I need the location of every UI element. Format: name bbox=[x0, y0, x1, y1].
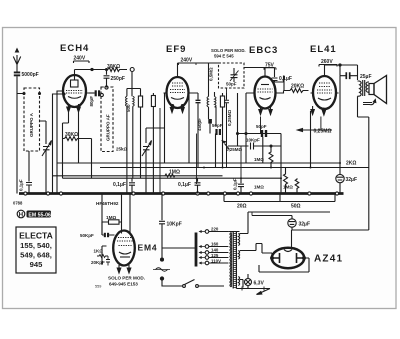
svg-text:155, 540,: 155, 540, bbox=[20, 241, 52, 250]
svg-text:594 E 545: 594 E 545 bbox=[214, 54, 234, 59]
wire bbox=[26, 183, 32, 194]
junction bbox=[270, 145, 272, 147]
svg-text:50Ω: 50Ω bbox=[291, 204, 301, 210]
wire bbox=[284, 168, 288, 194]
capacitor 25uF top right bbox=[339, 64, 341, 66]
wire bbox=[319, 65, 337, 67]
heater arrows EL41 bbox=[311, 106, 326, 115]
svg-text:0,1µF: 0,1µF bbox=[279, 76, 292, 82]
wire bbox=[261, 130, 263, 137]
wire bbox=[97, 255, 108, 258]
svg-text:ELECTA: ELECTA bbox=[19, 231, 53, 241]
wire bbox=[106, 256, 110, 266]
wire bbox=[98, 90, 100, 96]
bottom heater wires bbox=[236, 288, 270, 290]
dashed box 50pF trimmer bbox=[219, 63, 245, 88]
wire bbox=[280, 134, 282, 194]
svg-text:649-945 E153: 649-945 E153 bbox=[109, 282, 138, 287]
svg-text:EM4: EM4 bbox=[138, 243, 158, 253]
EM4 section verticals bbox=[102, 194, 130, 236]
svg-text:0,25MΩ: 0,25MΩ bbox=[227, 109, 232, 126]
line F y=212 bbox=[248, 211, 330, 213]
vertical 340 with 32uF bbox=[339, 76, 341, 175]
wire bbox=[320, 117, 322, 131]
wire bbox=[238, 93, 252, 134]
svg-text:30KΩ: 30KΩ bbox=[65, 132, 78, 138]
junction bbox=[160, 277, 163, 280]
32uF cap upper bbox=[336, 174, 344, 193]
wire bbox=[129, 178, 135, 193]
group bbox=[311, 65, 339, 100]
misc wires EBC3 right bbox=[279, 91, 284, 94]
wire bbox=[222, 107, 224, 168]
wire bbox=[295, 178, 299, 193]
wire bbox=[238, 178, 244, 193]
junction bbox=[39, 93, 41, 95]
wire bbox=[259, 289, 270, 294]
wire bbox=[223, 141, 226, 143]
wire bbox=[132, 113, 134, 128]
svg-text:0,25MΩ: 0,25MΩ bbox=[314, 129, 332, 135]
terminal bbox=[100, 93, 103, 96]
wire bbox=[262, 137, 264, 163]
wire bbox=[340, 65, 358, 76]
junction dots antenna coil bbox=[23, 93, 25, 95]
svg-text:160: 160 bbox=[211, 242, 219, 247]
wire bbox=[165, 92, 167, 94]
svg-text:945: 945 bbox=[30, 260, 43, 269]
pickup symbol bbox=[156, 268, 168, 272]
wire bbox=[104, 233, 106, 237]
wire bbox=[262, 287, 266, 291]
wire ECH4 left to bus bbox=[57, 91, 60, 194]
wire bbox=[260, 117, 262, 134]
wire bbox=[265, 130, 267, 137]
wire bbox=[89, 92, 95, 94]
IF2 coils bbox=[208, 63, 210, 97]
wire bbox=[165, 174, 175, 177]
capacitor 0.1uF after EBC3 bbox=[265, 68, 284, 83]
svg-text:125: 125 bbox=[211, 253, 219, 258]
0,25M pot arrow bbox=[302, 129, 332, 131]
svg-text:450pF: 450pF bbox=[197, 118, 202, 131]
cap right of IF2 bbox=[224, 93, 229, 168]
svg-text:1MΩ: 1MΩ bbox=[254, 185, 264, 190]
wires around 30K bbox=[63, 139, 92, 179]
wire bbox=[78, 112, 80, 163]
right side down wires bbox=[292, 104, 369, 230]
output transformer bbox=[358, 80, 370, 104]
svg-text:25µF: 25µF bbox=[360, 74, 372, 80]
svg-text:549, 648,: 549, 648, bbox=[20, 251, 52, 260]
wire bbox=[127, 72, 141, 97]
svg-text:0,1µF: 0,1µF bbox=[233, 178, 238, 190]
tube EL41 bbox=[313, 76, 336, 109]
svg-text:220: 220 bbox=[211, 227, 219, 232]
wire bbox=[346, 72, 349, 79]
voltage selector bar bbox=[195, 233, 198, 267]
svg-text:0,5MΩ: 0,5MΩ bbox=[209, 67, 214, 81]
wire bbox=[197, 103, 199, 167]
wire bbox=[152, 93, 154, 194]
stamp EM 55-06 bbox=[17, 210, 51, 218]
svg-text:32µF: 32µF bbox=[346, 177, 358, 183]
wire bbox=[198, 285, 224, 287]
group bbox=[271, 242, 306, 264]
svg-text:0,1µF: 0,1µF bbox=[19, 179, 24, 191]
svg-text:110V: 110V bbox=[211, 258, 221, 263]
svg-text:25kΩ: 25kΩ bbox=[116, 147, 128, 152]
capacitor 250pF bbox=[106, 69, 108, 71]
wire bbox=[146, 127, 165, 129]
wire EM4 right bbox=[162, 247, 196, 249]
svg-text:250pF: 250pF bbox=[111, 76, 125, 82]
wire bbox=[178, 62, 220, 64]
coil box GRUPPO AF bbox=[101, 87, 113, 152]
wire bbox=[291, 230, 293, 242]
svg-text:EL41: EL41 bbox=[310, 44, 337, 55]
ELECTA box bbox=[16, 227, 56, 273]
junction dots mid bbox=[196, 162, 342, 179]
wire bbox=[231, 68, 238, 82]
junction bbox=[245, 133, 247, 135]
wire box to tuning bbox=[40, 121, 47, 144]
svg-text:HF46TH92: HF46TH92 bbox=[96, 201, 119, 206]
wire bbox=[279, 91, 284, 94]
tube EM4 bbox=[113, 231, 135, 266]
volume pot line bbox=[238, 133, 282, 135]
svg-text:1MΩ: 1MΩ bbox=[254, 157, 264, 162]
pins and heater arrows EF9 bbox=[171, 105, 183, 107]
svg-text:GRUPPO A: GRUPPO A bbox=[29, 112, 34, 137]
AZ41 tube bbox=[272, 248, 304, 268]
wire bbox=[63, 137, 83, 141]
wire bbox=[240, 280, 243, 288]
extra vertical wires bbox=[159, 108, 161, 194]
wire bbox=[219, 63, 265, 68]
junction bbox=[130, 68, 134, 72]
wire ECH4 grid left bbox=[53, 94, 64, 194]
10KpF cap bbox=[228, 143, 281, 150]
coil IF1 secondary bbox=[133, 96, 134, 106]
left components of EM4 bbox=[102, 246, 107, 265]
terminal bbox=[105, 86, 108, 89]
resistor 500 bbox=[138, 96, 142, 107]
group bbox=[170, 108, 184, 113]
heater arrows EM4 bbox=[117, 265, 131, 273]
svg-text:0,25MΩ: 0,25MΩ bbox=[226, 147, 243, 152]
wire bbox=[226, 96, 228, 143]
wire bbox=[240, 287, 244, 291]
svg-text:H: H bbox=[19, 211, 24, 218]
line B y=167.5 bbox=[100, 167, 369, 169]
speaker bbox=[369, 76, 387, 104]
svg-text:1MΩ: 1MΩ bbox=[169, 170, 180, 176]
wire bbox=[108, 68, 127, 72]
1M resistor box bbox=[102, 222, 122, 235]
wire bbox=[195, 178, 201, 193]
wire bbox=[264, 68, 276, 70]
svg-text:50pF: 50pF bbox=[212, 123, 223, 128]
capacitor 5000pF bbox=[14, 72, 24, 194]
line C1 y=175.8 bbox=[53, 175, 223, 177]
svg-text:50pF: 50pF bbox=[226, 82, 237, 87]
svg-text:0788: 0788 bbox=[13, 201, 23, 206]
wire bbox=[373, 100, 376, 103]
wire bbox=[245, 134, 247, 164]
svg-text:50pF: 50pF bbox=[256, 124, 267, 129]
50pF cap small left bbox=[215, 129, 217, 135]
wire bbox=[240, 244, 272, 259]
10KpF cap right of EM4 bbox=[159, 194, 165, 259]
EF9 cathode network / IF2 transformer bbox=[192, 93, 199, 100]
junction bbox=[183, 285, 186, 288]
chassis bus bbox=[19, 192, 344, 195]
wire bbox=[237, 134, 239, 147]
tube ECH4 bbox=[63, 75, 86, 107]
svg-text:SOLO PER MOD.: SOLO PER MOD. bbox=[211, 48, 246, 53]
svg-text:140: 140 bbox=[211, 248, 219, 253]
wire bbox=[104, 70, 110, 88]
junction bbox=[91, 68, 93, 70]
wire bbox=[219, 129, 221, 135]
antenna bbox=[13, 49, 20, 72]
svg-text:50KpF: 50KpF bbox=[80, 233, 94, 238]
wire bbox=[63, 112, 69, 139]
svg-text:1KΩ: 1KΩ bbox=[94, 249, 104, 254]
svg-text:SOLO PER MOD.: SOLO PER MOD. bbox=[108, 276, 145, 281]
wire bbox=[209, 92, 215, 119]
wire bbox=[145, 128, 147, 143]
switch bbox=[162, 280, 195, 287]
power transformer bbox=[229, 232, 240, 289]
svg-text:559: 559 bbox=[95, 285, 101, 289]
group bbox=[60, 70, 89, 99]
junction bbox=[237, 133, 239, 135]
svg-text:0,1µF: 0,1µF bbox=[113, 182, 126, 188]
wire EL41 top bbox=[325, 64, 358, 66]
group bbox=[117, 238, 133, 258]
selector terminals bbox=[199, 230, 229, 265]
line D y=201.5 bbox=[224, 194, 335, 202]
transformer top secondary wires bbox=[240, 212, 249, 234]
32uF cap lower bbox=[288, 219, 296, 231]
svg-text:20KpF: 20KpF bbox=[91, 260, 105, 265]
tube EF9 bbox=[167, 77, 189, 108]
wire bbox=[215, 134, 217, 168]
wire bbox=[251, 212, 253, 216]
1M resistor vertical bbox=[269, 146, 273, 168]
wire bbox=[208, 119, 212, 124]
coil box GRUPPO A bbox=[24, 88, 40, 151]
junction dots on bus bbox=[24, 192, 339, 195]
junction bbox=[196, 285, 199, 288]
wire bbox=[225, 144, 230, 150]
wire EL41 lower left bbox=[310, 111, 312, 168]
pilot lamp bbox=[245, 274, 252, 289]
wire bbox=[252, 216, 292, 219]
wire tube top bbox=[75, 69, 109, 71]
svg-text:10KpF: 10KpF bbox=[167, 222, 182, 228]
wire bbox=[164, 93, 166, 163]
group bbox=[252, 85, 279, 100]
svg-text:2KΩ: 2KΩ bbox=[346, 161, 356, 167]
wire bbox=[215, 97, 217, 107]
group bbox=[164, 63, 192, 99]
svg-text:6,3V: 6,3V bbox=[254, 281, 265, 287]
wire bbox=[196, 134, 198, 185]
wire bbox=[226, 88, 228, 93]
wire bbox=[284, 76, 309, 93]
resistor padding bbox=[151, 96, 155, 107]
svg-text:EF9: EF9 bbox=[166, 44, 186, 55]
wire bbox=[220, 96, 224, 107]
junction bbox=[161, 258, 164, 261]
svg-text:20KΩ: 20KΩ bbox=[291, 84, 304, 90]
heater arrows ECH4 bbox=[67, 104, 81, 112]
line A y=163 bbox=[57, 162, 340, 164]
wire bbox=[207, 97, 209, 107]
wire bbox=[354, 75, 359, 77]
svg-text:1MΩ: 1MΩ bbox=[283, 185, 293, 190]
wire bbox=[298, 129, 303, 132]
wire bbox=[153, 269, 170, 271]
svg-text:GRUPPO AF: GRUPPO AF bbox=[106, 114, 111, 141]
wire bbox=[109, 220, 120, 224]
wire bbox=[370, 101, 375, 105]
svg-text:1MΩ: 1MΩ bbox=[106, 215, 117, 220]
svg-text:EBC3: EBC3 bbox=[249, 45, 278, 56]
svg-text:32µF: 32µF bbox=[299, 222, 311, 228]
svg-text:ECH4: ECH4 bbox=[60, 43, 89, 54]
wire bbox=[127, 106, 133, 193]
capacitor 80pF at ECH4 bbox=[95, 90, 97, 96]
svg-text:5000pF: 5000pF bbox=[22, 72, 39, 78]
right vertical from EL41 top bbox=[357, 65, 359, 80]
AZ41 wires bbox=[259, 258, 309, 272]
variable capacitor tuning 1 bbox=[42, 141, 52, 194]
wire bbox=[209, 124, 211, 134]
svg-text:AZ41: AZ41 bbox=[314, 254, 343, 265]
svg-text:10KpF: 10KpF bbox=[246, 138, 260, 143]
svg-text:80pF: 80pF bbox=[89, 96, 94, 107]
wire bbox=[215, 107, 217, 126]
tube EBC3 bbox=[255, 77, 276, 109]
heater arrows EBC3 bbox=[259, 107, 272, 115]
coil IF1 primary bbox=[125, 96, 126, 106]
wire bbox=[196, 100, 201, 102]
line C2 y=178.2 bbox=[63, 177, 282, 179]
wire box to bus bbox=[28, 151, 30, 182]
field coil squiggle bbox=[363, 103, 372, 105]
wire bbox=[230, 71, 239, 82]
wire bbox=[140, 107, 142, 178]
variable capacitor tuning 2 bbox=[142, 141, 152, 194]
svg-text:20Ω: 20Ω bbox=[237, 204, 247, 210]
wire bbox=[257, 292, 262, 295]
wire bbox=[179, 63, 197, 65]
wire bbox=[74, 61, 90, 63]
wire bbox=[107, 233, 109, 237]
wire bbox=[102, 234, 115, 236]
svg-text:EM 55-06: EM 55-06 bbox=[28, 212, 51, 218]
wire from IF1 to EF9 grid bbox=[146, 93, 164, 144]
svg-text:0,1µF: 0,1µF bbox=[178, 182, 191, 188]
IF2 components left of EBC3 bbox=[222, 93, 224, 96]
